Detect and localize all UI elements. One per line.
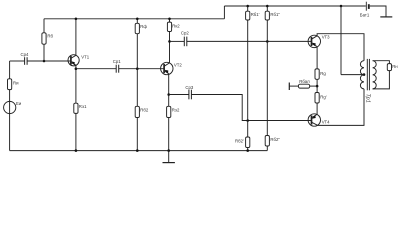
wire: Rбал to balance node	[310, 85, 317, 87]
resistor Rg'	[315, 93, 319, 104]
wire: centre-tap horizontal	[341, 74, 364, 76]
wire: top rail lower-left section	[44, 18, 224, 20]
wire: input line to Cр4	[10, 60, 25, 62]
svg-text:Rф: Rф	[140, 24, 147, 29]
junction: rail / divider B	[266, 5, 269, 8]
svg-text:VT2: VT2	[174, 63, 182, 68]
capacitor Cр2	[184, 37, 187, 47]
resistor Rбал	[298, 84, 309, 88]
wire: rail step up	[223, 6, 225, 19]
svg-text:Rи: Rи	[13, 81, 19, 86]
wire: secondary top to Rн	[373, 61, 390, 64]
wire: VT1 emitter to Cр1	[76, 68, 116, 70]
transistor VT3	[308, 35, 320, 47]
wire: bottom rail	[10, 150, 268, 152]
svg-text:VT1: VT1	[81, 55, 89, 60]
wire: Rб upper lead	[43, 19, 45, 33]
resistor Rэ1	[74, 103, 78, 113]
capacitor Cр1	[116, 65, 119, 73]
junction: VT3 base / divider B	[266, 40, 269, 43]
wire: VT1 emitter down	[75, 65, 77, 103]
wire: Rн to secondary bottom	[373, 71, 390, 89]
ground (top right)	[380, 16, 392, 18]
wire: Rф upper lead	[136, 19, 138, 24]
wire: Rф to base node	[136, 34, 138, 69]
wire: Rg' to VT4 collector	[316, 103, 318, 115]
svg-text:Rб1'': Rб1''	[270, 12, 280, 17]
wire: divider B to bottom rail end	[266, 146, 268, 151]
svg-text:Бат1: Бат1	[360, 12, 370, 17]
wire: centre-tap drop	[340, 6, 342, 75]
transformer Тр1	[360, 59, 376, 90]
svg-text:Cр1: Cр1	[113, 59, 121, 64]
junction: bottom rail / ground tap	[167, 149, 170, 152]
wire: VT1 collector to rail	[75, 19, 77, 56]
svg-text:Тр1: Тр1	[365, 94, 371, 103]
resistor Rи	[8, 79, 12, 90]
resistor Rб2	[135, 106, 139, 117]
svg-text:Rбал: Rбал	[299, 79, 310, 84]
transistor VT1	[68, 55, 79, 66]
wire: divider B upper lead	[266, 6, 268, 11]
junction: VT2 collector / Cр2 line	[168, 40, 171, 43]
wire: divider A middle	[247, 20, 249, 137]
transistor VT2	[161, 62, 173, 74]
resistor Rф	[135, 23, 139, 33]
junction: rail / Rф	[136, 18, 139, 21]
wire: divider A to bottom rail	[247, 148, 249, 151]
wire: VT2 collector up	[169, 32, 171, 63]
capacitor Cр4	[25, 57, 28, 65]
svg-text:Rэ2: Rэ2	[172, 107, 180, 112]
svg-text:Rб1': Rб1'	[251, 12, 260, 17]
svg-text:VT4: VT4	[322, 120, 330, 125]
junction: bottom rail / Rэ1	[75, 149, 78, 152]
svg-text:VT3: VT3	[322, 35, 330, 40]
svg-text:Cр4: Cр4	[21, 52, 29, 57]
wire: divider B middle	[266, 20, 268, 136]
junction: VT1 emitter node	[75, 67, 78, 70]
junction: VT4 base / divider A	[246, 119, 249, 122]
capacitor Cр3	[189, 90, 192, 100]
resistor Rб2'	[246, 137, 250, 148]
svg-text:Rб: Rб	[47, 34, 53, 39]
svg-text:Rg: Rg	[320, 71, 326, 76]
junction: base node VT1 / Rб	[43, 60, 46, 63]
wire: Rи to bottom rail	[9, 90, 11, 151]
wire: VT2 emitter node to Cр3	[169, 94, 189, 96]
wire: Cр1 to VT2 base	[119, 68, 164, 70]
junction: rail / Rк2	[168, 18, 171, 21]
wire: Rg to node	[316, 79, 318, 92]
svg-text:Rб2: Rб2	[140, 107, 149, 112]
wire: VT3 emitter to Rg	[316, 47, 318, 69]
svg-text:Rб2'': Rб2''	[270, 137, 280, 142]
svg-text:Rg': Rg'	[320, 94, 326, 99]
wire: VT3 collector to primary top	[317, 34, 364, 61]
resistor Rб2''	[265, 136, 269, 147]
battery Бат1	[366, 2, 369, 11]
svg-text:Cр3: Cр3	[185, 85, 193, 90]
source Eи	[4, 101, 16, 113]
terminal: balance tap	[288, 83, 290, 91]
junction: bottom rail / divider A	[246, 149, 249, 152]
svg-text:Rб2': Rб2'	[235, 139, 244, 144]
wire: battery to ground corner	[370, 6, 386, 17]
junction: VT2 emitter node / Cр3 line	[167, 93, 170, 96]
wire: Cр2 to VT3 base	[187, 40, 312, 42]
wire: terminal to Rбал	[289, 85, 298, 87]
wire: top rail upper-right section	[224, 5, 365, 7]
resistor Rк2	[167, 22, 171, 31]
junction: transformer primary centre tap	[363, 73, 366, 76]
junction: VT2 base node / Rф divider	[136, 67, 139, 70]
svg-text:Rк2: Rк2	[172, 23, 180, 28]
junction: rail / VT1 collector	[75, 18, 78, 21]
resistor Rн	[387, 64, 391, 71]
junction: bottom rail / Rб2	[136, 149, 139, 152]
wire: VT2 emitter down	[168, 74, 170, 107]
svg-text:Eи: Eи	[16, 101, 22, 106]
wire: Cр4 to VT1 base	[27, 60, 71, 62]
transistor VT4	[308, 114, 320, 126]
resistor Rg	[315, 69, 319, 79]
wire: Rб lower lead	[43, 44, 45, 61]
wire: VT2 collector to Cр2	[170, 40, 185, 42]
junction: balance node	[316, 85, 319, 88]
resistor Rб1'	[246, 11, 250, 20]
wire: VT4 emitter to primary bottom	[317, 89, 364, 126]
ground (bottom centre)	[163, 162, 175, 164]
resistor Rб1''	[265, 11, 269, 20]
wire: Rэ1 to bottom rail	[75, 113, 77, 150]
resistor Rб	[42, 33, 46, 44]
svg-text:Rэ1: Rэ1	[79, 104, 87, 109]
svg-text:Rн: Rн	[392, 64, 398, 69]
wire: ground lead	[168, 151, 170, 163]
wire: Cр3 to VT4 base	[191, 95, 311, 121]
wire: Rб2 to bottom rail	[136, 118, 138, 151]
resistor Rэ2	[167, 106, 171, 117]
junction: rail / divider A	[246, 5, 249, 8]
wire: input branch upper	[9, 61, 11, 79]
junction: rail / centre-tap drop	[340, 5, 343, 8]
wire: base node down to Rб2	[136, 69, 138, 107]
svg-text:Cр2: Cр2	[181, 31, 189, 36]
wire: Rэ2 to bottom rail	[168, 118, 170, 151]
wire: divider A upper lead	[247, 6, 249, 11]
wire: Rк2 to rail	[169, 19, 171, 22]
